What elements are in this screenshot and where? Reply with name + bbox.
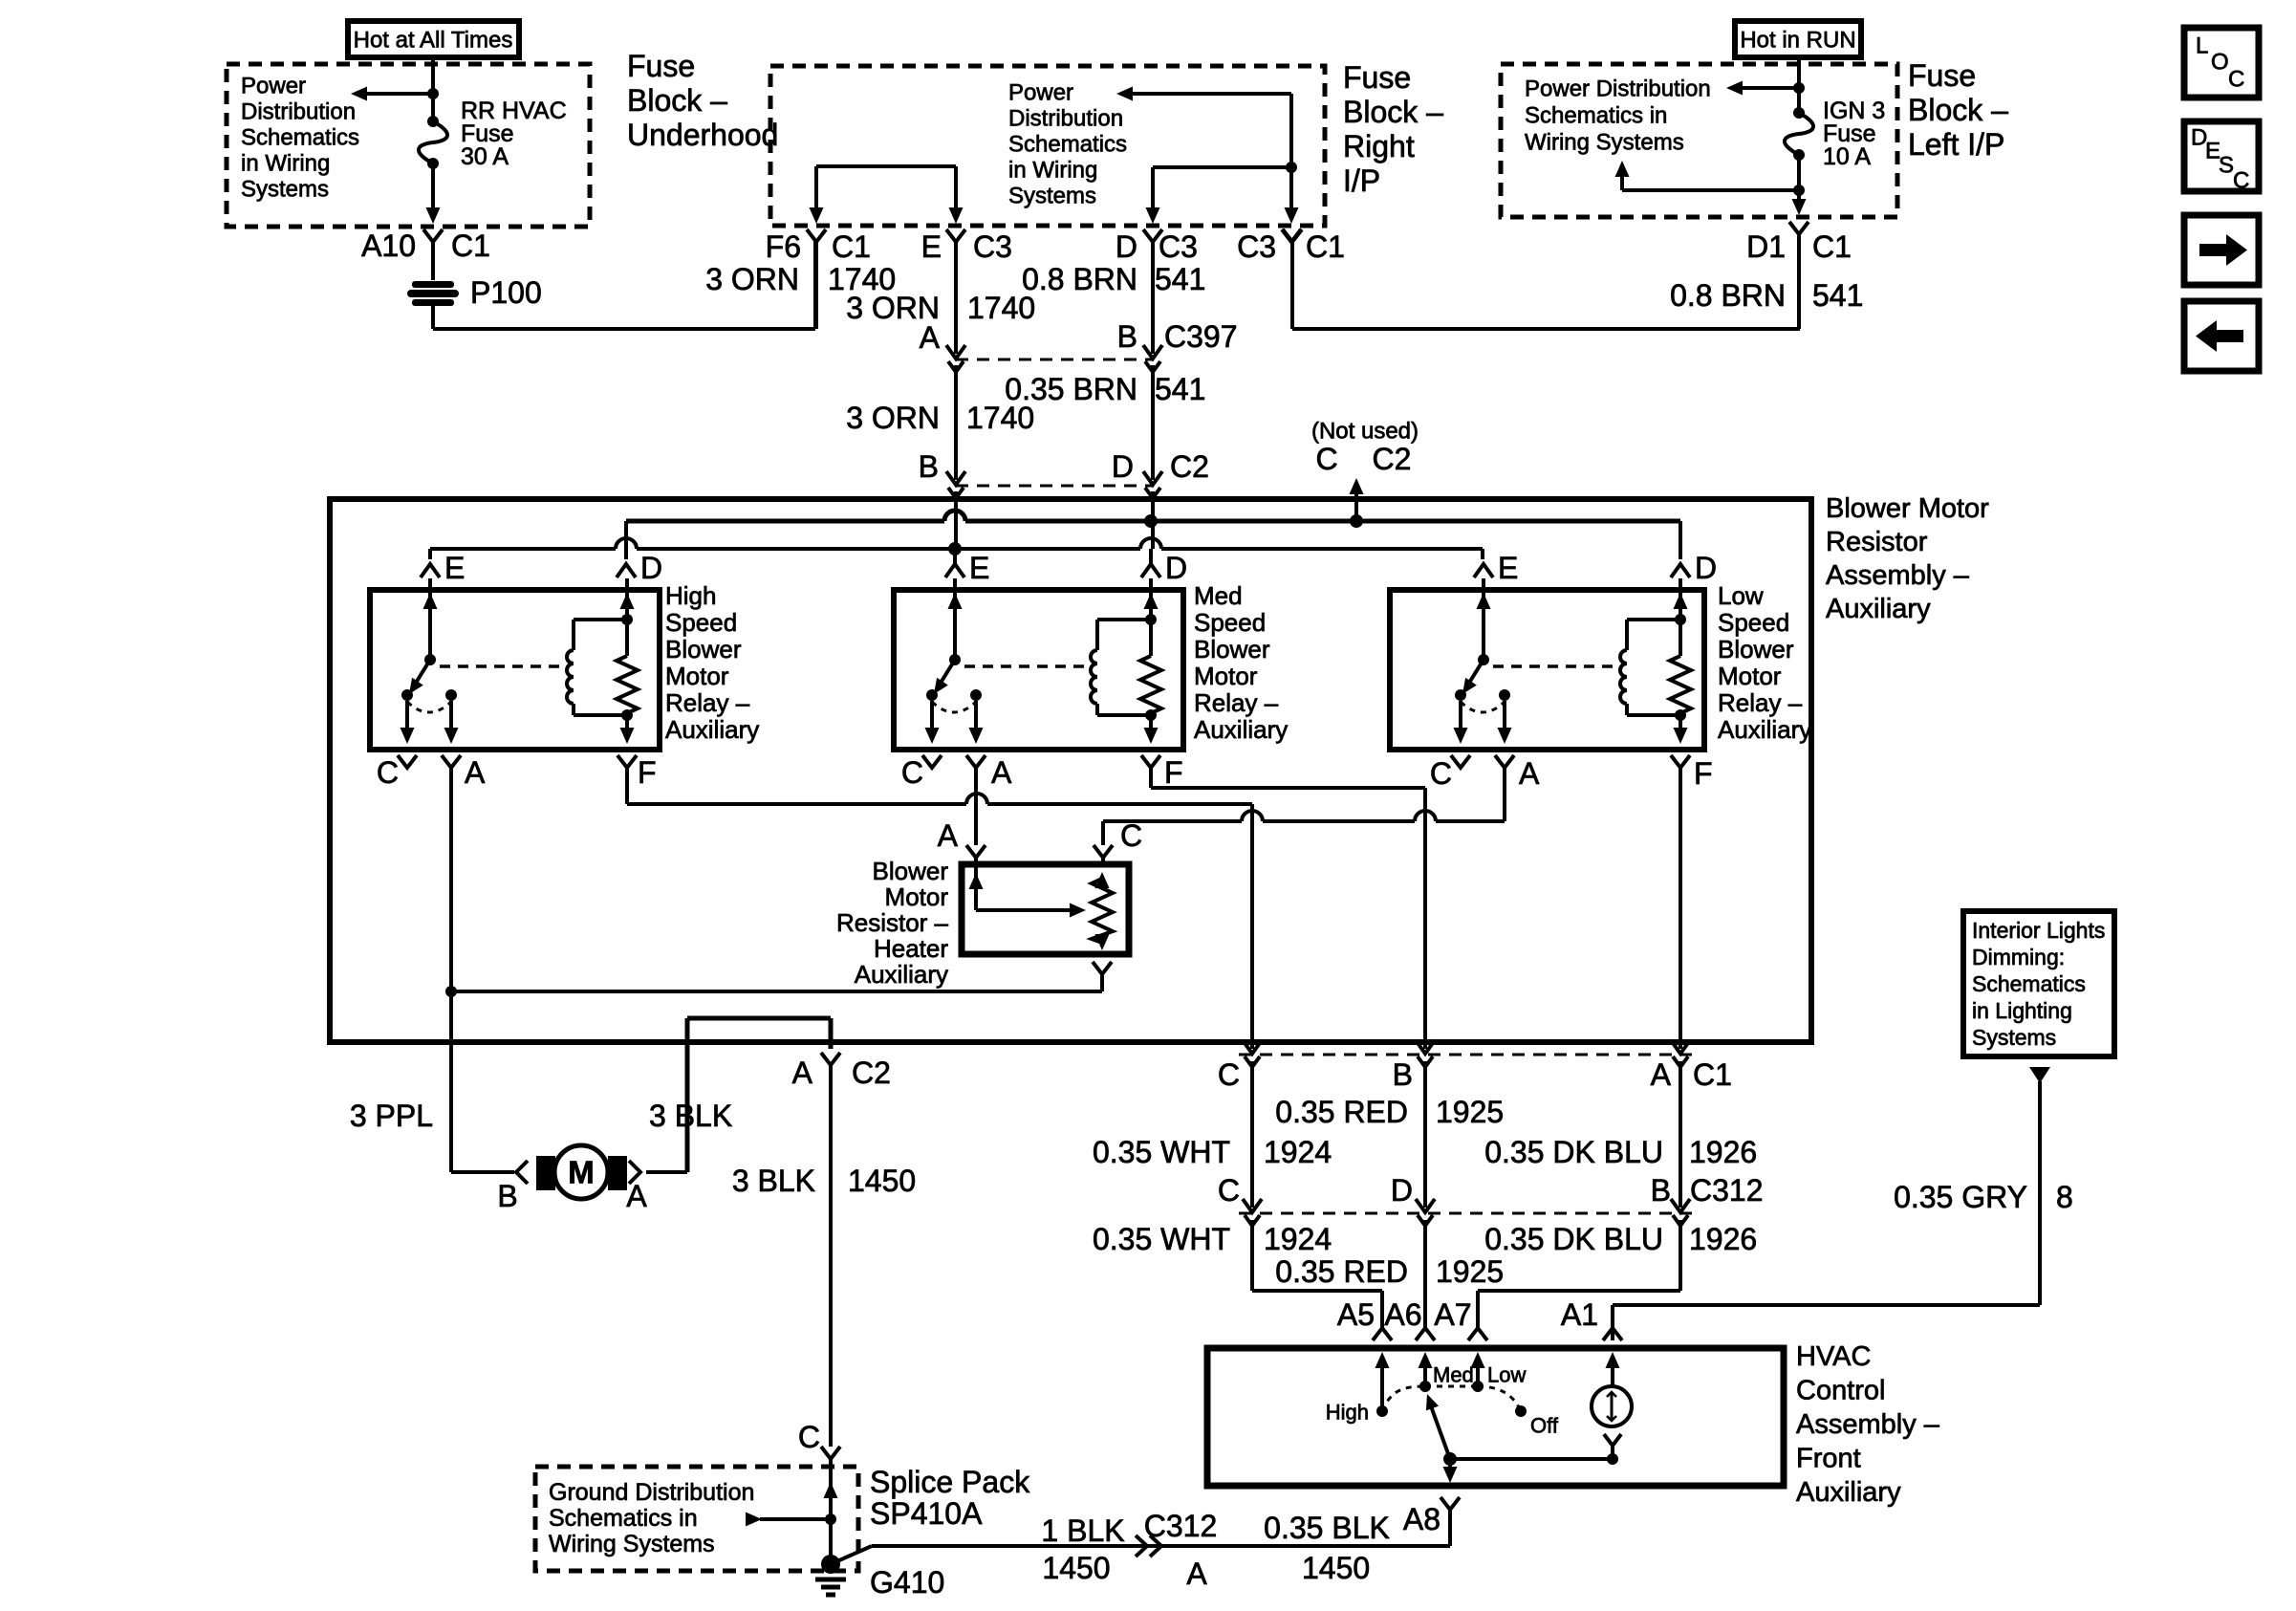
svg-text:D: D bbox=[1112, 449, 1134, 484]
svg-text:0.8 BRN: 0.8 BRN bbox=[1022, 262, 1137, 296]
svg-text:I/P: I/P bbox=[1343, 163, 1380, 198]
svg-text:Control: Control bbox=[1796, 1376, 1886, 1406]
svg-text:C1: C1 bbox=[451, 229, 490, 263]
svg-text:0.35 DK BLU: 0.35 DK BLU bbox=[1484, 1135, 1663, 1169]
svg-text:C3: C3 bbox=[1159, 229, 1198, 264]
svg-text:Relay –: Relay – bbox=[1194, 688, 1279, 717]
svg-text:Front: Front bbox=[1796, 1444, 1861, 1474]
svg-text:Speed: Speed bbox=[1194, 608, 1266, 637]
svg-text:High: High bbox=[665, 581, 716, 610]
svg-text:1450: 1450 bbox=[1302, 1551, 1370, 1585]
svg-text:C: C bbox=[1430, 756, 1452, 791]
svg-text:C: C bbox=[1315, 442, 1337, 476]
svg-text:C: C bbox=[377, 755, 399, 790]
svg-text:Low: Low bbox=[1718, 581, 1764, 610]
svg-text:Block –: Block – bbox=[627, 83, 727, 118]
svg-text:0.35 GRY: 0.35 GRY bbox=[1894, 1180, 2027, 1214]
svg-text:HVAC: HVAC bbox=[1796, 1341, 1871, 1372]
svg-text:Speed: Speed bbox=[665, 608, 737, 637]
svg-text:A: A bbox=[1651, 1057, 1672, 1092]
svg-text:8: 8 bbox=[2056, 1180, 2073, 1214]
svg-text:3 PPL: 3 PPL bbox=[350, 1099, 433, 1133]
svg-text:Auxiliary: Auxiliary bbox=[1718, 715, 1811, 744]
svg-text:D: D bbox=[1116, 229, 1137, 264]
svg-text:Off: Off bbox=[1530, 1414, 1559, 1438]
svg-text:Wiring Systems: Wiring Systems bbox=[549, 1531, 715, 1557]
svg-text:Power Distribution: Power Distribution bbox=[1525, 76, 1711, 101]
svg-text:C2: C2 bbox=[1373, 442, 1412, 476]
svg-text:Resistor: Resistor bbox=[1826, 527, 1928, 557]
svg-text:Relay –: Relay – bbox=[665, 688, 750, 717]
svg-text:L: L bbox=[2196, 33, 2208, 58]
svg-text:(Not used): (Not used) bbox=[1311, 418, 1419, 444]
svg-text:F: F bbox=[1694, 756, 1713, 791]
svg-text:Left I/P: Left I/P bbox=[1908, 127, 2004, 162]
svg-text:A5: A5 bbox=[1337, 1297, 1375, 1332]
svg-text:C: C bbox=[1120, 818, 1142, 853]
svg-text:C: C bbox=[1218, 1173, 1240, 1208]
svg-text:C: C bbox=[2228, 66, 2244, 92]
svg-text:O: O bbox=[2211, 49, 2229, 75]
svg-text:C1: C1 bbox=[1306, 229, 1345, 264]
svg-text:3 BLK: 3 BLK bbox=[732, 1164, 815, 1198]
svg-text:Underhood: Underhood bbox=[627, 118, 778, 152]
svg-text:in Wiring: in Wiring bbox=[1008, 157, 1097, 183]
svg-text:Right: Right bbox=[1343, 129, 1415, 163]
svg-text:A1: A1 bbox=[1561, 1297, 1598, 1332]
svg-text:Block –: Block – bbox=[1343, 95, 1443, 129]
svg-text:B: B bbox=[497, 1179, 517, 1213]
svg-text:Distribution: Distribution bbox=[241, 98, 356, 124]
svg-text:0.8 BRN: 0.8 BRN bbox=[1670, 278, 1786, 313]
svg-text:30 A: 30 A bbox=[461, 143, 509, 170]
svg-text:1740: 1740 bbox=[967, 291, 1035, 325]
svg-text:E: E bbox=[969, 551, 989, 585]
svg-text:1 BLK: 1 BLK bbox=[1041, 1513, 1124, 1548]
svg-text:E: E bbox=[921, 229, 942, 264]
svg-text:Auxiliary: Auxiliary bbox=[665, 715, 759, 744]
svg-text:Systems: Systems bbox=[1008, 183, 1096, 208]
svg-text:C1: C1 bbox=[1812, 229, 1852, 264]
svg-text:Systems: Systems bbox=[1972, 1025, 2056, 1050]
svg-text:M: M bbox=[568, 1155, 595, 1190]
svg-text:Fuse: Fuse bbox=[1343, 60, 1411, 95]
svg-text:Blower: Blower bbox=[665, 635, 742, 664]
svg-text:A: A bbox=[1519, 756, 1540, 791]
svg-text:Relay –: Relay – bbox=[1718, 688, 1803, 717]
svg-text:A7: A7 bbox=[1434, 1297, 1471, 1332]
svg-text:Auxiliary: Auxiliary bbox=[855, 960, 948, 989]
svg-text:A: A bbox=[792, 1056, 813, 1090]
svg-text:Speed: Speed bbox=[1718, 608, 1789, 637]
svg-text:C: C bbox=[798, 1420, 820, 1454]
svg-text:Splice Pack: Splice Pack bbox=[870, 1465, 1030, 1499]
svg-text:A: A bbox=[1186, 1557, 1207, 1591]
svg-text:E: E bbox=[444, 551, 465, 585]
svg-text:0.35 BLK: 0.35 BLK bbox=[1264, 1511, 1390, 1545]
svg-text:Motor: Motor bbox=[1194, 662, 1258, 690]
svg-text:Blower: Blower bbox=[1194, 635, 1270, 664]
svg-text:Low: Low bbox=[1487, 1363, 1526, 1387]
svg-text:541: 541 bbox=[1155, 372, 1205, 406]
svg-text:A6: A6 bbox=[1384, 1297, 1421, 1332]
svg-text:A8: A8 bbox=[1403, 1502, 1440, 1536]
svg-text:B: B bbox=[919, 449, 939, 484]
svg-text:Med: Med bbox=[1194, 581, 1243, 610]
svg-text:in Wiring: in Wiring bbox=[241, 150, 330, 176]
svg-text:E: E bbox=[1498, 551, 1518, 585]
svg-text:Auxiliary: Auxiliary bbox=[1194, 715, 1288, 744]
svg-text:Ground Distribution: Ground Distribution bbox=[549, 1479, 754, 1506]
svg-text:0.35 WHT: 0.35 WHT bbox=[1093, 1135, 1230, 1169]
svg-text:C1: C1 bbox=[1693, 1057, 1732, 1092]
svg-text:3 ORN: 3 ORN bbox=[705, 262, 799, 296]
svg-text:Med: Med bbox=[1433, 1363, 1474, 1387]
svg-text:Schematics: Schematics bbox=[1972, 971, 2086, 996]
svg-text:Schematics: Schematics bbox=[1008, 131, 1127, 157]
svg-text:Hot at All Times: Hot at All Times bbox=[354, 27, 513, 53]
svg-text:Wiring Systems: Wiring Systems bbox=[1525, 129, 1684, 155]
svg-text:P100: P100 bbox=[470, 275, 542, 310]
svg-text:C2: C2 bbox=[1170, 449, 1209, 484]
svg-text:Distribution: Distribution bbox=[1008, 105, 1123, 131]
svg-text:Motor: Motor bbox=[1718, 662, 1782, 690]
svg-text:1925: 1925 bbox=[1436, 1095, 1504, 1129]
svg-text:B: B bbox=[1651, 1173, 1671, 1208]
svg-text:Blower: Blower bbox=[873, 857, 949, 885]
svg-text:C3: C3 bbox=[1237, 229, 1276, 264]
svg-text:D: D bbox=[1391, 1173, 1413, 1208]
svg-text:F6: F6 bbox=[766, 229, 801, 264]
svg-text:1924: 1924 bbox=[1264, 1135, 1332, 1169]
svg-text:0.35 DK BLU: 0.35 DK BLU bbox=[1484, 1222, 1663, 1256]
svg-text:1925: 1925 bbox=[1436, 1254, 1504, 1289]
svg-text:Motor: Motor bbox=[885, 882, 949, 911]
svg-text:A: A bbox=[626, 1179, 647, 1213]
svg-text:A: A bbox=[465, 755, 486, 790]
svg-text:1924: 1924 bbox=[1264, 1222, 1332, 1256]
svg-text:A: A bbox=[991, 755, 1012, 790]
svg-text:A: A bbox=[920, 320, 941, 355]
svg-text:C2: C2 bbox=[852, 1056, 891, 1090]
svg-text:Blower Motor: Blower Motor bbox=[1826, 493, 1989, 524]
svg-text:Systems: Systems bbox=[241, 176, 329, 202]
svg-text:Block –: Block – bbox=[1908, 93, 2008, 127]
svg-text:SP410A: SP410A bbox=[870, 1496, 983, 1531]
svg-text:10 A: 10 A bbox=[1823, 143, 1871, 170]
svg-text:D: D bbox=[1165, 551, 1187, 585]
svg-text:3 BLK: 3 BLK bbox=[649, 1099, 732, 1133]
svg-text:C: C bbox=[901, 755, 923, 790]
svg-text:Motor: Motor bbox=[665, 662, 729, 690]
svg-text:541: 541 bbox=[1155, 262, 1205, 296]
svg-text:1926: 1926 bbox=[1689, 1135, 1757, 1169]
svg-text:F: F bbox=[1164, 755, 1183, 790]
svg-text:A: A bbox=[938, 818, 959, 853]
svg-text:High: High bbox=[1326, 1401, 1369, 1425]
svg-text:Heater: Heater bbox=[874, 934, 948, 963]
svg-text:1450: 1450 bbox=[1042, 1551, 1110, 1585]
svg-text:Schematics in: Schematics in bbox=[549, 1505, 698, 1532]
svg-text:1740: 1740 bbox=[966, 401, 1034, 435]
svg-text:1450: 1450 bbox=[848, 1164, 916, 1198]
svg-text:Hot in RUN: Hot in RUN bbox=[1740, 27, 1855, 53]
svg-text:541: 541 bbox=[1812, 278, 1863, 313]
svg-text:C3: C3 bbox=[973, 229, 1012, 264]
svg-text:Blower: Blower bbox=[1718, 635, 1794, 664]
svg-text:D1: D1 bbox=[1746, 229, 1786, 264]
svg-text:G410: G410 bbox=[870, 1565, 944, 1600]
svg-text:Assembly –: Assembly – bbox=[1826, 560, 1970, 591]
svg-text:Power: Power bbox=[1008, 79, 1073, 105]
svg-text:0.35 RED: 0.35 RED bbox=[1275, 1095, 1408, 1129]
svg-text:Schematics in: Schematics in bbox=[1525, 102, 1667, 128]
svg-text:Schematics: Schematics bbox=[241, 124, 359, 150]
svg-text:1926: 1926 bbox=[1689, 1222, 1757, 1256]
svg-text:C: C bbox=[2233, 167, 2249, 193]
svg-text:Fuse: Fuse bbox=[1908, 58, 1976, 93]
svg-text:C312: C312 bbox=[1144, 1509, 1218, 1543]
svg-text:Power: Power bbox=[241, 73, 306, 98]
svg-text:F: F bbox=[638, 755, 657, 790]
svg-text:C312: C312 bbox=[1690, 1173, 1764, 1208]
svg-text:C: C bbox=[1218, 1057, 1240, 1092]
svg-text:C397: C397 bbox=[1164, 319, 1238, 354]
svg-text:Interior Lights: Interior Lights bbox=[1972, 918, 2105, 943]
svg-text:S: S bbox=[2219, 152, 2234, 178]
svg-text:D: D bbox=[1695, 551, 1717, 585]
svg-text:0.35 RED: 0.35 RED bbox=[1275, 1254, 1408, 1289]
svg-text:Auxiliary: Auxiliary bbox=[1796, 1477, 1901, 1508]
svg-text:Fuse: Fuse bbox=[627, 49, 695, 83]
svg-text:B: B bbox=[1117, 319, 1137, 354]
svg-text:C1: C1 bbox=[832, 229, 871, 264]
svg-text:Assembly –: Assembly – bbox=[1796, 1409, 1940, 1440]
svg-text:3 ORN: 3 ORN bbox=[846, 401, 940, 435]
svg-text:Resistor –: Resistor – bbox=[836, 908, 949, 937]
svg-text:Auxiliary: Auxiliary bbox=[1826, 594, 1931, 624]
svg-text:D: D bbox=[640, 551, 662, 585]
svg-text:A10: A10 bbox=[361, 229, 416, 263]
svg-text:in Lighting: in Lighting bbox=[1972, 998, 2072, 1023]
svg-text:0.35 WHT: 0.35 WHT bbox=[1093, 1222, 1230, 1256]
svg-text:Dimming:: Dimming: bbox=[1972, 945, 2065, 969]
svg-text:B: B bbox=[1393, 1057, 1413, 1092]
